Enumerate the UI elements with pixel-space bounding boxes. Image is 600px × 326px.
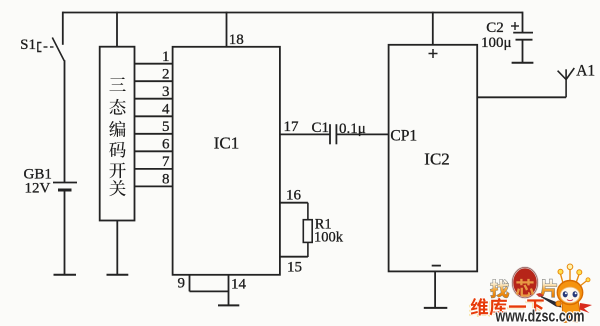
wire S1 drop from rail (62, 12, 64, 45)
pin 17 label (284, 119, 300, 135)
wire pin 15 (IC1 to R1 bottom) (280, 256, 308, 258)
wire pin 8 (encoder to IC1) (135, 185, 173, 187)
wire pin 18 drop from rail (226, 12, 228, 47)
svg-text:6: 6 (162, 137, 170, 153)
svg-text:C1: C1 (312, 120, 330, 136)
wire IC2 output to antenna (477, 96, 566, 98)
svg-text:C2: C2 (486, 20, 504, 36)
pin 18 label (229, 32, 244, 48)
battery GB1 (24, 167, 78, 197)
wire pin 7 (encoder to IC1) (135, 168, 173, 170)
wire left rail S1 to battery (64, 60, 66, 182)
IC2 plus terminal mark (429, 49, 438, 58)
capacitor C2 (481, 12, 533, 51)
wire pin 14 to ground (228, 275, 230, 305)
ground (C2) (512, 62, 534, 64)
pin 6 label (162, 137, 170, 153)
svg-text:www.dzsc.com: www.dzsc.com (495, 306, 585, 325)
svg-text:14: 14 (231, 277, 247, 293)
capacitor C1 (312, 120, 366, 144)
svg-text:17: 17 (284, 119, 300, 135)
ground (encoder block) (107, 274, 129, 276)
switch S1 (20, 37, 64, 61)
antenna A1 (558, 63, 596, 98)
svg-text:9: 9 (178, 276, 186, 292)
svg-text:S1: S1 (20, 37, 36, 53)
wire C1 to IC2 (CP1 input) (336, 133, 388, 135)
svg-text:100k: 100k (314, 230, 344, 246)
pin 7 label (162, 154, 170, 170)
svg-text:4: 4 (162, 102, 170, 118)
pin 8 label (162, 172, 170, 188)
wire encoder block to ground (116, 221, 118, 275)
pin 5 label (162, 119, 170, 135)
pin 9 label (178, 276, 186, 292)
wire pin 6 (encoder to IC1) (135, 150, 173, 152)
svg-text:16: 16 (286, 188, 302, 204)
svg-text:IC1: IC1 (214, 134, 240, 153)
pin 15 label (287, 260, 302, 276)
resistor R1 (303, 203, 343, 257)
ground (IC2) (424, 307, 448, 309)
wire IC2 plus supply drop from rail (432, 12, 434, 45)
wire pin 4 (encoder to IC1) (135, 115, 173, 117)
svg-text:12V: 12V (25, 181, 51, 197)
svg-text:18: 18 (229, 32, 244, 48)
pin 14 label (231, 277, 247, 293)
wire top supply rail (63, 12, 523, 14)
IC2 minus terminal mark (432, 265, 441, 267)
pin 3 label (162, 84, 170, 100)
pin 2 label (162, 67, 170, 83)
encoder IC1 box (173, 47, 280, 275)
wire encoder block drop from rail (116, 12, 118, 47)
tri-state code switch block (三态编码开关) (100, 47, 135, 221)
wire pin 1 (encoder to IC1) (135, 63, 173, 65)
svg-text:IC2: IC2 (424, 150, 450, 169)
wire pin 16 (IC1 to R1) (280, 202, 308, 204)
svg-text:100μ: 100μ (481, 35, 512, 51)
ground (battery) (54, 274, 77, 276)
wire C2 to ground (522, 40, 524, 63)
transmitter IC2 box (389, 45, 478, 272)
svg-text:3: 3 (162, 84, 170, 100)
svg-text:A1: A1 (576, 63, 595, 80)
svg-text:15: 15 (287, 260, 302, 276)
svg-text:7: 7 (162, 154, 170, 170)
pin 9 stub (189, 275, 191, 292)
pin 16 label (286, 188, 302, 204)
wire battery to ground (64, 190, 66, 274)
svg-text:CP1: CP1 (390, 128, 417, 145)
svg-text:1: 1 (162, 49, 170, 65)
svg-text:5: 5 (162, 119, 170, 135)
CP1 pin label (390, 128, 417, 145)
wire pin 5 (encoder to IC1) (135, 133, 173, 135)
wire pin 9 to pin 14 (190, 290, 229, 292)
wire pin 2 (encoder to IC1) (135, 80, 173, 82)
wire pin 3 (encoder to IC1) (135, 98, 173, 100)
wire pin 17 (IC1 to C1) (280, 133, 330, 135)
svg-text:2: 2 (162, 67, 170, 83)
pin 1 label (162, 49, 170, 65)
svg-text:8: 8 (162, 172, 170, 188)
pin 4 label (162, 102, 170, 118)
watermark logo (dzsc.com mascot and text) (469, 264, 592, 325)
ground (IC1 pins 9/14) (218, 304, 239, 306)
wire IC2 to ground (434, 271, 436, 307)
